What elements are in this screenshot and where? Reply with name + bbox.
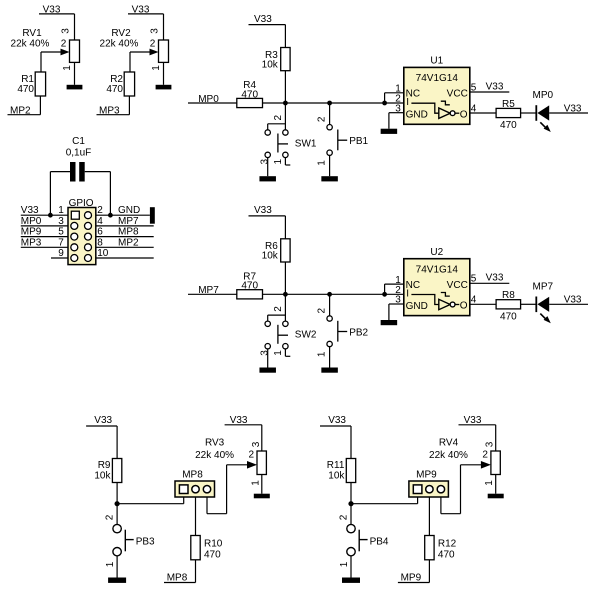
svg-text:MP8: MP8 bbox=[167, 572, 188, 583]
pin 5 (GPIO) bbox=[71, 233, 78, 240]
wire (GPIO pin 8 to net MP2) bbox=[96, 246, 154, 248]
svg-text:22k 40%: 22k 40% bbox=[429, 450, 468, 461]
inverter symbol (U2) bbox=[411, 293, 467, 312]
wire bbox=[440, 497, 442, 514]
wire (GPIO pin 6 to net MP8) bbox=[96, 236, 154, 238]
wire (net MP9 to GPIO pin 5) bbox=[21, 236, 68, 238]
LED MP7 bbox=[533, 281, 554, 323]
svg-text:1: 1 bbox=[316, 160, 327, 166]
wire bbox=[549, 112, 588, 114]
svg-text:2: 2 bbox=[150, 38, 156, 49]
wire bbox=[329, 294, 331, 316]
svg-text:MP2: MP2 bbox=[118, 237, 139, 248]
wire bbox=[351, 503, 418, 505]
wire bbox=[74, 62, 76, 84]
pin 8 (GPIO) bbox=[85, 244, 92, 251]
wire bbox=[350, 556, 352, 578]
svg-text:PB1: PB1 bbox=[349, 136, 368, 147]
svg-text:5: 5 bbox=[58, 227, 64, 238]
svg-text:74V1G14: 74V1G14 bbox=[416, 264, 459, 275]
switch SW1 bbox=[265, 124, 317, 158]
wire bbox=[284, 294, 286, 321]
wire bbox=[117, 503, 184, 505]
svg-text:10k: 10k bbox=[262, 251, 279, 262]
svg-text:PB3: PB3 bbox=[136, 537, 155, 548]
pin 1 NC (U2) bbox=[385, 275, 420, 291]
wire bbox=[261, 425, 263, 451]
wire bbox=[495, 475, 497, 494]
svg-text:O: O bbox=[460, 301, 468, 312]
svg-text:9: 9 bbox=[58, 248, 64, 259]
svg-text:V33: V33 bbox=[564, 295, 582, 306]
ground (SW1) bbox=[259, 176, 276, 181]
ground (RV3) bbox=[254, 494, 270, 499]
svg-text:10k: 10k bbox=[94, 471, 111, 482]
svg-text:2: 2 bbox=[316, 116, 327, 122]
wire (net MP3 to GPIO pin 7) bbox=[21, 246, 68, 248]
svg-text:V33: V33 bbox=[564, 103, 582, 114]
svg-text:1: 1 bbox=[273, 158, 284, 164]
connector GPIO bbox=[68, 198, 96, 265]
power flag V33 (RV1 top) bbox=[39, 4, 75, 15]
wire bbox=[329, 103, 331, 125]
pin 10 (GPIO) bbox=[85, 255, 92, 262]
svg-text:2: 2 bbox=[482, 450, 488, 461]
svg-text:1: 1 bbox=[151, 65, 162, 71]
svg-text:3: 3 bbox=[149, 28, 160, 34]
wire bbox=[128, 96, 130, 115]
pin 5 VCC (U1) bbox=[447, 82, 510, 99]
capacitor C1 bbox=[70, 136, 85, 182]
svg-text:SW2: SW2 bbox=[295, 330, 317, 341]
wire bbox=[163, 14, 165, 40]
net label MP8 (bottom) bbox=[164, 572, 196, 583]
svg-text:V33: V33 bbox=[328, 415, 346, 426]
svg-text:V33: V33 bbox=[486, 273, 504, 284]
svg-text:MP7: MP7 bbox=[118, 216, 139, 227]
wire bbox=[207, 513, 227, 515]
op-amp U2 74V1G14 bbox=[404, 247, 470, 316]
wire bbox=[163, 62, 165, 84]
svg-text:MP9: MP9 bbox=[21, 227, 42, 238]
wire bbox=[116, 426, 118, 459]
ground (SW2) bbox=[259, 368, 276, 373]
svg-text:0,1uF: 0,1uF bbox=[66, 147, 92, 158]
wire bbox=[39, 96, 41, 115]
svg-text:1: 1 bbox=[105, 561, 116, 567]
potentiometer RV3 bbox=[205, 437, 266, 474]
wire bbox=[49, 172, 51, 216]
pin 7 (GPIO) bbox=[71, 244, 78, 251]
wire bbox=[195, 497, 197, 536]
pin 2 (MP8) bbox=[192, 486, 199, 493]
junction bbox=[348, 501, 353, 506]
wire bbox=[428, 497, 430, 536]
svg-text:470: 470 bbox=[500, 120, 517, 131]
svg-text:470: 470 bbox=[17, 84, 34, 95]
svg-text:V33: V33 bbox=[486, 81, 504, 92]
svg-text:1: 1 bbox=[484, 480, 495, 486]
svg-text:2: 2 bbox=[316, 307, 327, 313]
resistor R3 bbox=[265, 48, 290, 71]
svg-text:2: 2 bbox=[105, 514, 116, 520]
ground (PB2) bbox=[321, 368, 338, 373]
resistor R11 bbox=[327, 459, 356, 483]
wire bbox=[441, 513, 461, 515]
pin 1 stub (SW1) bbox=[285, 158, 290, 165]
op-amp U1 74V1G14 bbox=[404, 56, 470, 125]
svg-text:MP9: MP9 bbox=[401, 572, 422, 583]
resistor R9 bbox=[98, 459, 122, 483]
wire bbox=[50, 171, 70, 173]
svg-text:GND: GND bbox=[406, 110, 428, 121]
pin 5 VCC (U2) bbox=[447, 274, 510, 291]
svg-text:1: 1 bbox=[316, 351, 327, 357]
push button PB4 bbox=[347, 524, 389, 556]
svg-text:6: 6 bbox=[97, 227, 103, 238]
power flag V33 (RV2 top) bbox=[128, 4, 164, 15]
power flag V33 (R6 top) bbox=[249, 205, 286, 216]
svg-text:R10: R10 bbox=[204, 538, 223, 549]
svg-text:10k: 10k bbox=[328, 471, 345, 482]
svg-text:R5: R5 bbox=[502, 99, 515, 110]
wire bbox=[549, 303, 588, 305]
junction bbox=[283, 292, 288, 297]
pin 9 (GPIO) bbox=[71, 255, 78, 262]
svg-text:22k 40%: 22k 40% bbox=[195, 450, 234, 461]
resistor R1 bbox=[21, 72, 45, 96]
pin 1 (MP9, square pad) bbox=[413, 485, 422, 494]
ground (PB1) bbox=[321, 176, 338, 181]
junction bbox=[283, 101, 288, 106]
svg-text:2: 2 bbox=[61, 38, 67, 49]
wire bbox=[284, 103, 286, 130]
wiper arrow of RV2 bbox=[130, 49, 159, 56]
resistor R8 bbox=[496, 290, 520, 309]
power flag V33 (RV4 top) bbox=[459, 415, 496, 426]
pin 3 (MP8) bbox=[203, 486, 210, 493]
resistor R2 bbox=[110, 72, 134, 96]
svg-text:PB2: PB2 bbox=[349, 327, 368, 338]
svg-text:GND: GND bbox=[118, 205, 140, 216]
resistor R6 bbox=[265, 239, 290, 262]
svg-text:MP8: MP8 bbox=[118, 227, 139, 238]
ground (RV2) bbox=[156, 85, 172, 90]
svg-text:MP8: MP8 bbox=[182, 469, 203, 480]
wire bbox=[195, 560, 197, 583]
svg-text:1: 1 bbox=[273, 350, 284, 356]
svg-text:7: 7 bbox=[58, 237, 64, 248]
svg-text:4: 4 bbox=[97, 216, 103, 227]
svg-text:VCC: VCC bbox=[447, 89, 468, 100]
svg-text:R12: R12 bbox=[438, 538, 457, 549]
svg-text:2: 2 bbox=[273, 114, 284, 120]
wire (GPIO pin 9) bbox=[51, 257, 68, 259]
wire bbox=[40, 52, 42, 72]
wire bbox=[74, 14, 76, 40]
ground (PB4) bbox=[342, 578, 360, 583]
potentiometer RV2 bbox=[111, 28, 168, 63]
wire bbox=[417, 497, 419, 504]
ground (U2 pin 3) bbox=[381, 320, 398, 325]
svg-text:2: 2 bbox=[339, 514, 350, 520]
svg-text:3: 3 bbox=[259, 350, 270, 356]
svg-text:8: 8 bbox=[97, 237, 103, 248]
wire bbox=[329, 347, 331, 368]
pin 1 (MP8, square pad) bbox=[179, 485, 188, 494]
wire bbox=[284, 25, 286, 48]
junction bbox=[115, 501, 120, 506]
wire bbox=[116, 483, 118, 525]
switch SW2 bbox=[265, 315, 317, 349]
svg-text:3: 3 bbox=[58, 216, 64, 227]
wire bbox=[284, 216, 286, 239]
junction (C1 right / GPIO pin 2) bbox=[108, 213, 113, 218]
net label MP9 (bottom) bbox=[398, 572, 430, 583]
pin 2 (GPIO) bbox=[85, 212, 92, 219]
svg-text:RV2: RV2 bbox=[111, 28, 131, 39]
svg-text:470: 470 bbox=[241, 89, 258, 100]
resistor R7 bbox=[237, 272, 263, 299]
svg-text:SW1: SW1 bbox=[295, 138, 317, 149]
wire bbox=[206, 497, 208, 514]
net label MP3 bbox=[97, 106, 130, 117]
wire bbox=[495, 425, 497, 451]
wire bbox=[388, 304, 390, 320]
wire bbox=[329, 155, 331, 176]
wire bbox=[460, 465, 462, 514]
wire (net MP0) bbox=[188, 102, 237, 104]
potentiometer RV1 bbox=[22, 28, 79, 63]
wire bbox=[263, 293, 404, 295]
svg-text:1: 1 bbox=[250, 480, 261, 486]
svg-text:1: 1 bbox=[339, 561, 350, 567]
pin 3 GND (U1) bbox=[389, 103, 428, 120]
svg-text:I: I bbox=[406, 289, 409, 300]
wire bbox=[284, 262, 286, 294]
svg-text:VCC: VCC bbox=[447, 280, 468, 291]
svg-text:RV4: RV4 bbox=[439, 437, 459, 448]
svg-text:O: O bbox=[460, 109, 468, 120]
svg-text:10: 10 bbox=[97, 248, 109, 259]
push button PB1 bbox=[327, 125, 369, 156]
svg-text:3: 3 bbox=[60, 28, 71, 34]
svg-text:3: 3 bbox=[259, 158, 270, 164]
ground (RV4) bbox=[488, 494, 504, 499]
wire bbox=[521, 303, 536, 305]
wire bbox=[183, 497, 185, 504]
pin 3 GND (U2) bbox=[389, 295, 428, 312]
svg-text:V33: V33 bbox=[21, 205, 39, 216]
pin 4 (GPIO) bbox=[85, 222, 92, 229]
pin 4 O (U1) bbox=[470, 103, 496, 114]
svg-text:2: 2 bbox=[273, 306, 284, 312]
LED MP0 bbox=[533, 90, 554, 132]
connector MP8 bbox=[175, 469, 215, 497]
svg-text:V33: V33 bbox=[254, 205, 272, 216]
wire (GPIO pin 2 to net GND) bbox=[96, 214, 150, 216]
wiper arrow of RV3 bbox=[227, 461, 257, 469]
resistor R4 bbox=[237, 80, 263, 107]
power flag V33 (R9 top) bbox=[86, 415, 117, 426]
wire bbox=[129, 52, 131, 72]
connector MP9 bbox=[409, 469, 449, 497]
wire bbox=[384, 284, 386, 294]
pin 1 (GPIO, square pad) bbox=[71, 211, 79, 219]
svg-text:GND: GND bbox=[406, 301, 428, 312]
net label MP2 bbox=[8, 106, 41, 117]
wire (GPIO pin 4 to net MP7) bbox=[96, 225, 154, 227]
svg-text:3: 3 bbox=[251, 441, 262, 447]
wire bbox=[109, 172, 111, 216]
junction bbox=[327, 101, 332, 106]
wire (net MP0 to GPIO pin 3) bbox=[21, 225, 68, 227]
svg-text:MP7: MP7 bbox=[533, 281, 554, 292]
wire bbox=[384, 93, 386, 103]
wire (net MP7) bbox=[188, 293, 237, 295]
push button PB2 bbox=[327, 316, 369, 347]
svg-text:V33: V33 bbox=[94, 415, 112, 426]
wire bbox=[428, 560, 430, 583]
svg-text:470: 470 bbox=[438, 549, 455, 560]
svg-text:R8: R8 bbox=[502, 290, 515, 301]
wire (net V33 to GPIO pin 1) bbox=[21, 214, 68, 216]
svg-text:470: 470 bbox=[106, 84, 123, 95]
svg-text:V33: V33 bbox=[254, 14, 272, 25]
svg-text:RV1: RV1 bbox=[22, 28, 42, 39]
wire bbox=[267, 349, 269, 368]
svg-text:I: I bbox=[406, 97, 409, 108]
svg-text:74V1G14: 74V1G14 bbox=[416, 73, 459, 84]
ground (PB3) bbox=[108, 578, 126, 583]
svg-text:MP9: MP9 bbox=[416, 469, 437, 480]
push button PB3 bbox=[113, 524, 155, 556]
pin 6 (GPIO) bbox=[85, 233, 92, 240]
pin 1 NC (U1) bbox=[385, 84, 420, 100]
svg-text:2: 2 bbox=[97, 205, 103, 216]
wire bbox=[226, 465, 228, 514]
wiper arrow of RV4 bbox=[461, 461, 491, 469]
svg-text:C1: C1 bbox=[72, 136, 85, 147]
power flag V33 (RV3 top) bbox=[225, 415, 262, 426]
wire bbox=[116, 556, 118, 578]
wire bbox=[350, 483, 352, 525]
svg-text:U1: U1 bbox=[430, 56, 443, 67]
svg-text:1: 1 bbox=[58, 205, 64, 216]
junction bbox=[327, 292, 332, 297]
potentiometer RV4 bbox=[439, 437, 500, 474]
svg-text:PB4: PB4 bbox=[370, 537, 389, 548]
svg-text:RV3: RV3 bbox=[205, 437, 225, 448]
wire bbox=[85, 171, 111, 173]
power flag V33 (R11 top) bbox=[320, 415, 351, 426]
svg-text:470: 470 bbox=[500, 311, 517, 322]
pin 2 (MP9) bbox=[426, 486, 433, 493]
svg-text:22k 40%: 22k 40% bbox=[11, 38, 50, 49]
wire (GPIO pin 10) bbox=[96, 257, 154, 259]
svg-text:10k: 10k bbox=[262, 59, 279, 70]
wire bbox=[521, 112, 536, 114]
inverter symbol (U1) bbox=[411, 101, 467, 120]
pin 1 stub (SW2) bbox=[285, 349, 290, 356]
pin 3 (GPIO) bbox=[71, 222, 78, 229]
junction bbox=[382, 101, 387, 106]
svg-text:470: 470 bbox=[241, 281, 258, 292]
junction (C1 left / GPIO pin 1) bbox=[48, 213, 53, 218]
svg-text:22k 40%: 22k 40% bbox=[100, 38, 139, 49]
svg-text:U2: U2 bbox=[430, 247, 443, 258]
resistor R5 bbox=[496, 99, 520, 118]
wire bbox=[350, 426, 352, 459]
svg-text:MP0: MP0 bbox=[533, 90, 554, 101]
resistor R10 bbox=[191, 536, 223, 560]
svg-text:1: 1 bbox=[62, 65, 73, 71]
pin 2 I (U2) bbox=[395, 285, 409, 300]
ground (RV1) bbox=[67, 85, 83, 90]
pin 3 (MP9) bbox=[437, 486, 444, 493]
pin 2 I (U1) bbox=[395, 94, 409, 109]
GND tag bar bbox=[150, 207, 155, 224]
svg-text:2: 2 bbox=[249, 450, 255, 461]
wire bbox=[284, 71, 286, 103]
svg-text:470: 470 bbox=[204, 549, 221, 560]
svg-text:MP3: MP3 bbox=[21, 237, 42, 248]
resistor R12 bbox=[425, 536, 457, 560]
svg-text:3: 3 bbox=[485, 441, 496, 447]
junction bbox=[382, 292, 387, 297]
wire bbox=[267, 158, 269, 177]
wire bbox=[261, 475, 263, 494]
wire bbox=[263, 102, 404, 104]
pin 4 O (U2) bbox=[470, 295, 496, 306]
svg-text:MP0: MP0 bbox=[21, 216, 42, 227]
power flag V33 (R3 top) bbox=[249, 14, 286, 25]
wire bbox=[388, 113, 390, 129]
ground (U1 pin 3) bbox=[381, 129, 398, 134]
wiper arrow of RV1 bbox=[41, 49, 70, 56]
